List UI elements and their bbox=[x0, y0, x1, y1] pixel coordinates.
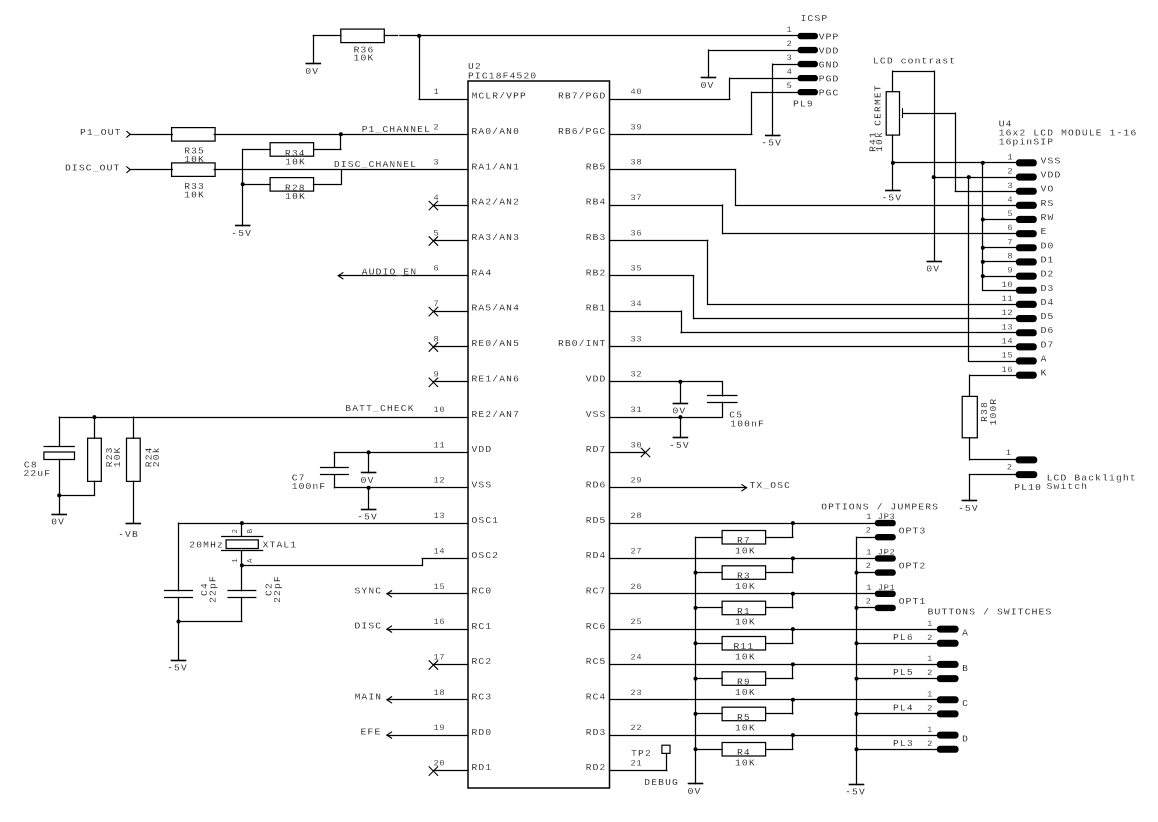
svg-text:-5V: -5V bbox=[357, 511, 378, 522]
wire R7 left bbox=[696, 537, 723, 539]
svg-text:15: 15 bbox=[434, 582, 446, 592]
svg-text:-VB: -VB bbox=[118, 529, 139, 540]
svg-text:17: 17 bbox=[434, 652, 446, 662]
wire OSC2 bbox=[242, 559, 468, 566]
resistor R38 bbox=[962, 396, 999, 437]
svg-text:1: 1 bbox=[927, 619, 933, 629]
wire pin24 to PL5 bbox=[610, 664, 937, 666]
node VSS31 junction bbox=[678, 415, 682, 419]
net label AUDIO_EN bbox=[362, 266, 418, 277]
svg-text:VDD: VDD bbox=[1041, 170, 1062, 181]
svg-text:OSC1: OSC1 bbox=[472, 515, 500, 526]
svg-text:RB0/INT: RB0/INT bbox=[558, 338, 607, 349]
svg-text:PL3: PL3 bbox=[893, 738, 914, 749]
ground -5V (dividers) bbox=[231, 226, 252, 240]
svg-text:MAIN: MAIN bbox=[355, 691, 383, 702]
capacitor C5 bbox=[708, 382, 765, 430]
ground 0V (C5) bbox=[672, 382, 687, 417]
wire PL6 pin2 bbox=[857, 643, 937, 645]
wire D6 from RB1 pin34 bbox=[610, 311, 1016, 333]
svg-text:D4: D4 bbox=[1041, 297, 1055, 308]
svg-text:PIC18F4520: PIC18F4520 bbox=[468, 71, 537, 82]
net label DISC_OUT bbox=[65, 162, 121, 173]
net label SYNC bbox=[355, 585, 383, 596]
wire SYNC bbox=[387, 591, 468, 597]
svg-text:22pF: 22pF bbox=[208, 575, 219, 603]
resistor R3 bbox=[722, 566, 766, 592]
svg-text:1: 1 bbox=[927, 654, 933, 664]
wire R4 left bbox=[696, 749, 723, 751]
svg-text:-5V: -5V bbox=[669, 440, 690, 451]
svg-text:RC0: RC0 bbox=[472, 586, 493, 597]
svg-text:R5: R5 bbox=[737, 712, 751, 723]
no-connect X pin 9 bbox=[429, 378, 438, 387]
wire R28 right up bbox=[314, 170, 342, 185]
node pin23 junction bbox=[791, 698, 795, 702]
svg-text:10K: 10K bbox=[184, 190, 205, 201]
resistor R34 bbox=[270, 143, 314, 168]
svg-text:26: 26 bbox=[631, 582, 643, 592]
svg-text:R7: R7 bbox=[737, 535, 751, 546]
wire R34 right up bbox=[314, 134, 341, 149]
svg-text:28: 28 bbox=[631, 511, 643, 521]
svg-text:0V: 0V bbox=[926, 264, 940, 275]
wire R1 right bbox=[766, 594, 793, 608]
wire LCD VDD bbox=[934, 177, 1016, 179]
node R11 left junction bbox=[694, 641, 698, 645]
svg-text:RC2: RC2 bbox=[472, 656, 493, 667]
connector PL9 pins bbox=[787, 25, 840, 99]
connector chevron P1_OUT bbox=[127, 131, 130, 137]
svg-text:VDD: VDD bbox=[819, 45, 840, 56]
wire R9 right bbox=[766, 664, 793, 678]
svg-text:D2: D2 bbox=[1041, 269, 1055, 280]
capacitor C2 bbox=[228, 565, 283, 621]
wire R41 bottom bbox=[892, 135, 894, 190]
svg-text:RE0/AN5: RE0/AN5 bbox=[472, 338, 521, 349]
svg-text:11: 11 bbox=[1001, 294, 1013, 304]
node R28 left junction bbox=[241, 182, 245, 186]
wire pin26 to JP1 bbox=[610, 593, 875, 595]
net label LCD contrast bbox=[873, 56, 956, 67]
svg-text:1: 1 bbox=[787, 25, 793, 35]
node P1 junction bbox=[339, 132, 343, 136]
svg-text:0V: 0V bbox=[51, 517, 65, 528]
wire A to VDD rail bbox=[969, 177, 1016, 361]
svg-text:C: C bbox=[962, 698, 969, 709]
resistor R11 bbox=[722, 637, 766, 663]
svg-text:ICSP: ICSP bbox=[801, 13, 829, 24]
wire PL10 pin2 to -5V bbox=[969, 475, 1015, 501]
svg-text:A: A bbox=[962, 628, 969, 639]
svg-text:13: 13 bbox=[1001, 322, 1013, 332]
net label LCD Backlight Switch bbox=[1047, 472, 1137, 492]
svg-text:10k: 10k bbox=[874, 131, 885, 152]
net label BATT_CHECK bbox=[345, 403, 414, 414]
wire R11 left bbox=[696, 643, 723, 645]
ground 0V (C8) bbox=[51, 495, 66, 527]
net label button D bbox=[962, 734, 969, 745]
svg-text:10K: 10K bbox=[112, 446, 123, 467]
svg-text:PGC: PGC bbox=[819, 88, 840, 99]
svg-text:6: 6 bbox=[434, 264, 440, 274]
ground -5V (C7) bbox=[357, 488, 378, 523]
svg-text:2: 2 bbox=[866, 596, 872, 606]
svg-text:-5V: -5V bbox=[231, 228, 252, 239]
svg-text:10K: 10K bbox=[735, 652, 756, 663]
node PL6 -5V junction bbox=[855, 641, 859, 645]
node pin27 junction bbox=[791, 556, 795, 560]
svg-text:10K: 10K bbox=[735, 581, 756, 592]
svg-text:13: 13 bbox=[434, 511, 446, 521]
net label MAIN bbox=[355, 691, 383, 702]
svg-text:1: 1 bbox=[927, 725, 933, 735]
wire PGC pin39 bbox=[610, 92, 798, 134]
node crystal bottom junction bbox=[240, 563, 244, 567]
svg-text:BUTTONS / SWITCHES: BUTTONS / SWITCHES bbox=[928, 607, 1053, 618]
svg-text:RC5: RC5 bbox=[586, 656, 607, 667]
wire MAIN bbox=[387, 697, 468, 703]
svg-text:P1_CHANNEL: P1_CHANNEL bbox=[362, 124, 431, 135]
svg-text:2: 2 bbox=[434, 122, 440, 132]
svg-text:12: 12 bbox=[1001, 308, 1013, 318]
svg-text:RC3: RC3 bbox=[472, 692, 493, 703]
connector PL4 pins bbox=[893, 690, 959, 718]
svg-text:14: 14 bbox=[434, 546, 446, 556]
node pin26 junction bbox=[791, 592, 795, 596]
node R41-VSS junction bbox=[891, 161, 895, 165]
svg-text:2: 2 bbox=[927, 668, 933, 678]
resistor R28 bbox=[270, 178, 314, 203]
resistor R1 bbox=[722, 601, 766, 627]
svg-text:B: B bbox=[247, 528, 255, 533]
wire ICSP GND bbox=[773, 64, 798, 135]
svg-text:RD5: RD5 bbox=[586, 515, 607, 526]
node VSS junction bbox=[367, 486, 371, 490]
connector PL3 pins bbox=[893, 725, 959, 753]
wire pin30 stub bbox=[610, 452, 646, 454]
svg-text:5: 5 bbox=[434, 228, 440, 238]
svg-text:1 JP1: 1 JP1 bbox=[866, 583, 895, 593]
svg-text:10K: 10K bbox=[735, 758, 756, 769]
svg-text:RE2/AN7: RE2/AN7 bbox=[472, 409, 521, 420]
svg-text:RB3: RB3 bbox=[586, 232, 607, 243]
svg-text:10K: 10K bbox=[735, 722, 756, 733]
svg-text:A: A bbox=[1041, 354, 1048, 365]
svg-text:OSC2: OSC2 bbox=[472, 550, 500, 561]
wire PL3 pin2 bbox=[857, 749, 937, 751]
svg-text:VO: VO bbox=[1041, 184, 1055, 195]
wire P1_OUT stub bbox=[130, 134, 172, 136]
wire pin21 to TP2 bbox=[610, 753, 667, 770]
svg-text:RD3: RD3 bbox=[586, 727, 607, 738]
svg-text:Switch: Switch bbox=[1047, 481, 1089, 492]
svg-text:15: 15 bbox=[1001, 351, 1013, 361]
svg-text:25: 25 bbox=[631, 617, 643, 627]
svg-text:6: 6 bbox=[1007, 223, 1013, 233]
wire DISC_OUT stub bbox=[130, 169, 172, 171]
wire PL5 pin2 bbox=[857, 678, 937, 680]
svg-text:10K: 10K bbox=[285, 191, 306, 202]
connector JP3 pins bbox=[866, 512, 896, 540]
connector PL6 pins bbox=[893, 619, 959, 647]
svg-text:PL10: PL10 bbox=[1014, 482, 1042, 493]
connector U4 LCD pins bbox=[1001, 153, 1061, 379]
svg-text:VDD: VDD bbox=[472, 444, 493, 455]
svg-text:3: 3 bbox=[1007, 181, 1013, 191]
svg-text:RB5: RB5 bbox=[586, 161, 607, 172]
wire P1 channel bbox=[214, 134, 468, 136]
node R9 left junction bbox=[694, 677, 698, 681]
wire K to R38 bbox=[970, 375, 1016, 396]
svg-text:RD4: RD4 bbox=[586, 550, 607, 561]
svg-text:-5V: -5V bbox=[845, 787, 866, 798]
svg-text:OPT3: OPT3 bbox=[899, 525, 927, 536]
wire DISC channel bbox=[214, 169, 468, 171]
wire TX_OSC bbox=[610, 485, 747, 491]
net label OPTIONS / JUMPERS bbox=[821, 502, 939, 513]
svg-text:E: E bbox=[1041, 226, 1048, 237]
svg-text:RC6: RC6 bbox=[586, 621, 607, 632]
wire VDD pin32 bbox=[610, 381, 723, 383]
no-connect X pin 17 bbox=[429, 661, 438, 670]
wire VSS pin31 bbox=[610, 417, 723, 419]
svg-text:22uF: 22uF bbox=[24, 468, 52, 479]
svg-text:33: 33 bbox=[631, 334, 643, 344]
svg-text:10K: 10K bbox=[735, 546, 756, 557]
wire DISC bbox=[387, 626, 468, 632]
resistor R33 bbox=[172, 163, 216, 201]
wire pin25 to PL6 bbox=[610, 629, 937, 631]
connector PL10 pins bbox=[1006, 448, 1042, 493]
connector chevron DISC_OUT bbox=[127, 167, 130, 173]
svg-text:100R: 100R bbox=[988, 398, 999, 426]
capacitor C7 bbox=[292, 452, 349, 491]
node R5 left junction bbox=[694, 712, 698, 716]
svg-text:D0: D0 bbox=[1041, 240, 1055, 251]
svg-text:OPT1: OPT1 bbox=[899, 596, 927, 607]
ground -5V (crystal) bbox=[167, 622, 188, 674]
net label P1_CHANNEL bbox=[362, 124, 431, 135]
net label EFE bbox=[361, 727, 382, 738]
svg-text:DISC_CHANNEL: DISC_CHANNEL bbox=[334, 159, 417, 170]
svg-text:37: 37 bbox=[631, 193, 643, 203]
svg-text:23: 23 bbox=[631, 688, 643, 698]
svg-text:-5V: -5V bbox=[761, 137, 782, 148]
svg-text:2: 2 bbox=[1007, 463, 1013, 473]
svg-text:4: 4 bbox=[787, 67, 793, 77]
svg-text:12: 12 bbox=[434, 476, 446, 486]
svg-text:-5V: -5V bbox=[881, 193, 902, 204]
svg-text:20k: 20k bbox=[151, 446, 162, 467]
svg-text:VSS: VSS bbox=[586, 409, 607, 420]
node PL3 -5V junction bbox=[855, 747, 859, 751]
ground -5V (C5) bbox=[669, 417, 690, 451]
svg-text:10K: 10K bbox=[354, 53, 375, 64]
net label OPT3 bbox=[899, 525, 927, 536]
resistor R4 bbox=[722, 743, 766, 769]
wire PL4 pin2 bbox=[857, 713, 937, 715]
wire pin 4 stub bbox=[433, 205, 468, 207]
svg-text:VSS: VSS bbox=[472, 479, 493, 490]
svg-text:RA3/AN3: RA3/AN3 bbox=[472, 232, 521, 243]
net label BUTTONS / SWITCHES bbox=[928, 607, 1053, 618]
svg-text:0V: 0V bbox=[672, 406, 686, 417]
ground -5V (R41) bbox=[881, 191, 902, 204]
svg-text:A: A bbox=[247, 558, 255, 563]
svg-text:4: 4 bbox=[1007, 195, 1013, 205]
svg-text:GND: GND bbox=[819, 60, 840, 71]
svg-text:CERMET: CERMET bbox=[873, 84, 884, 126]
U2 pin number labels bbox=[434, 87, 643, 769]
wire pin23 to PL4 bbox=[610, 699, 937, 701]
svg-text:5: 5 bbox=[1007, 209, 1013, 219]
svg-text:9: 9 bbox=[434, 370, 440, 380]
svg-text:14: 14 bbox=[1001, 337, 1013, 347]
svg-text:18: 18 bbox=[434, 688, 446, 698]
node R1 left junction bbox=[694, 606, 698, 610]
svg-text:16pinSIP: 16pinSIP bbox=[999, 137, 1054, 148]
svg-text:DISC_OUT: DISC_OUT bbox=[65, 162, 121, 173]
svg-text:10K: 10K bbox=[285, 156, 306, 167]
svg-text:RW: RW bbox=[1041, 212, 1055, 223]
IC U4 LCD labels bbox=[999, 119, 1138, 148]
resistor R5 bbox=[722, 707, 766, 733]
ground -5V (PL10) bbox=[958, 501, 979, 515]
wire pin 9 stub bbox=[433, 381, 468, 383]
node pin22 junction bbox=[791, 733, 795, 737]
wire R41 wiper to VO bbox=[903, 109, 1016, 192]
svg-text:VPP: VPP bbox=[819, 31, 840, 42]
net label TX_OSC bbox=[750, 480, 792, 491]
node pin25 junction bbox=[791, 627, 795, 631]
net label DEBUG bbox=[644, 777, 679, 788]
wire pin 20 stub bbox=[433, 770, 468, 772]
svg-text:RB4: RB4 bbox=[586, 197, 607, 208]
svg-text:RS: RS bbox=[1041, 198, 1055, 209]
svg-text:D6: D6 bbox=[1041, 325, 1055, 336]
svg-text:RA2/AN2: RA2/AN2 bbox=[472, 197, 521, 208]
connector PL5 pins bbox=[893, 654, 959, 682]
svg-text:2: 2 bbox=[787, 39, 793, 49]
wire pin27 to JP2 bbox=[610, 558, 875, 560]
svg-text:5: 5 bbox=[787, 81, 793, 91]
svg-text:24: 24 bbox=[631, 652, 643, 662]
ground 0V (C7) bbox=[361, 452, 376, 486]
svg-text:TX_OSC: TX_OSC bbox=[750, 480, 792, 491]
resistor R9 bbox=[722, 672, 766, 698]
svg-text:DISC: DISC bbox=[355, 621, 383, 632]
node pin28 junction bbox=[791, 521, 795, 525]
resistor R36 bbox=[341, 29, 385, 64]
connector JP2 pins bbox=[866, 547, 896, 575]
wire VSS chain to RW D0-D3 bbox=[983, 163, 1016, 291]
ground 0V (R36) bbox=[305, 36, 320, 77]
svg-text:D1: D1 bbox=[1041, 254, 1055, 265]
node C8 bottom junction bbox=[57, 493, 61, 497]
svg-text:OPTIONS / JUMPERS: OPTIONS / JUMPERS bbox=[821, 502, 939, 513]
potentiometer R41 bbox=[867, 84, 899, 152]
wire R11 right bbox=[766, 629, 793, 643]
svg-text:10K: 10K bbox=[735, 616, 756, 627]
wire R41 top to 0V rail bbox=[893, 71, 935, 261]
wire EFE bbox=[387, 732, 468, 738]
node PL4 -5V junction bbox=[855, 712, 859, 716]
svg-text:22pF: 22pF bbox=[272, 575, 283, 603]
wire 0V rail (resistors) bbox=[695, 537, 697, 784]
svg-text:2: 2 bbox=[927, 739, 933, 749]
svg-text:RE1/AN6: RE1/AN6 bbox=[472, 373, 521, 384]
wire pin28 to JP3 bbox=[610, 523, 875, 525]
svg-text:3: 3 bbox=[434, 158, 440, 168]
svg-text:39: 39 bbox=[631, 122, 643, 132]
svg-text:10: 10 bbox=[434, 405, 446, 415]
wire D5 from RB2 pin35 bbox=[610, 276, 1016, 319]
wire R3 left bbox=[696, 572, 723, 574]
ground 0V (LCD) bbox=[926, 262, 941, 275]
svg-text:-5V: -5V bbox=[167, 663, 188, 674]
svg-text:RC1: RC1 bbox=[472, 621, 493, 632]
wire D4 from RB3 pin36 bbox=[610, 240, 1016, 304]
svg-text:2: 2 bbox=[927, 633, 933, 643]
svg-text:16: 16 bbox=[1001, 365, 1013, 375]
wire -5V rail (jumpers/buttons) bbox=[856, 537, 858, 784]
svg-text:RD2: RD2 bbox=[586, 762, 607, 773]
svg-text:D: D bbox=[962, 734, 969, 745]
wire R4 right bbox=[766, 735, 793, 749]
svg-text:1: 1 bbox=[1006, 448, 1012, 458]
wire JP3 pin2 bbox=[857, 537, 875, 539]
svg-text:1: 1 bbox=[927, 690, 933, 700]
wire R7 right bbox=[766, 523, 793, 537]
svg-text:2: 2 bbox=[866, 561, 872, 571]
svg-text:20: 20 bbox=[434, 759, 446, 769]
node JP2 -5V junction bbox=[855, 571, 859, 575]
wire R1 left bbox=[696, 607, 723, 609]
svg-text:8: 8 bbox=[434, 334, 440, 344]
svg-text:1 JP2: 1 JP2 bbox=[866, 547, 895, 557]
svg-text:BATT_CHECK: BATT_CHECK bbox=[345, 403, 414, 414]
U2 pin name labels bbox=[472, 91, 607, 774]
ground -5V (jumpers/buttons) bbox=[845, 785, 866, 798]
svg-text:16: 16 bbox=[434, 617, 446, 627]
net label P1_OUT bbox=[80, 127, 122, 138]
node R3 left junction bbox=[694, 571, 698, 575]
wire pin 8 stub bbox=[433, 346, 468, 348]
svg-text:D7: D7 bbox=[1041, 339, 1055, 350]
resistor R24 bbox=[127, 417, 163, 523]
svg-text:8: 8 bbox=[1007, 252, 1013, 262]
ground -VB bbox=[118, 524, 140, 541]
net label button B bbox=[962, 663, 969, 674]
wire RS from RB5 pin38 bbox=[610, 170, 1016, 206]
capacitor C8 bbox=[24, 417, 75, 495]
svg-text:R9: R9 bbox=[737, 677, 751, 688]
wire MCLR down to pin1 bbox=[419, 36, 468, 100]
svg-text:EFE: EFE bbox=[361, 727, 382, 738]
svg-text:B: B bbox=[962, 663, 969, 674]
svg-text:R4: R4 bbox=[737, 747, 751, 758]
net label DISC bbox=[355, 621, 383, 632]
svg-text:RA0/AN0: RA0/AN0 bbox=[472, 126, 521, 137]
svg-text:R3: R3 bbox=[737, 571, 751, 582]
svg-text:OPT2: OPT2 bbox=[899, 561, 927, 572]
svg-text:D5: D5 bbox=[1041, 311, 1055, 322]
wire OSC1 bbox=[179, 523, 469, 525]
svg-text:TP2: TP2 bbox=[631, 748, 652, 759]
no-connect X pin 7 bbox=[429, 307, 438, 316]
svg-text:34: 34 bbox=[631, 299, 643, 309]
